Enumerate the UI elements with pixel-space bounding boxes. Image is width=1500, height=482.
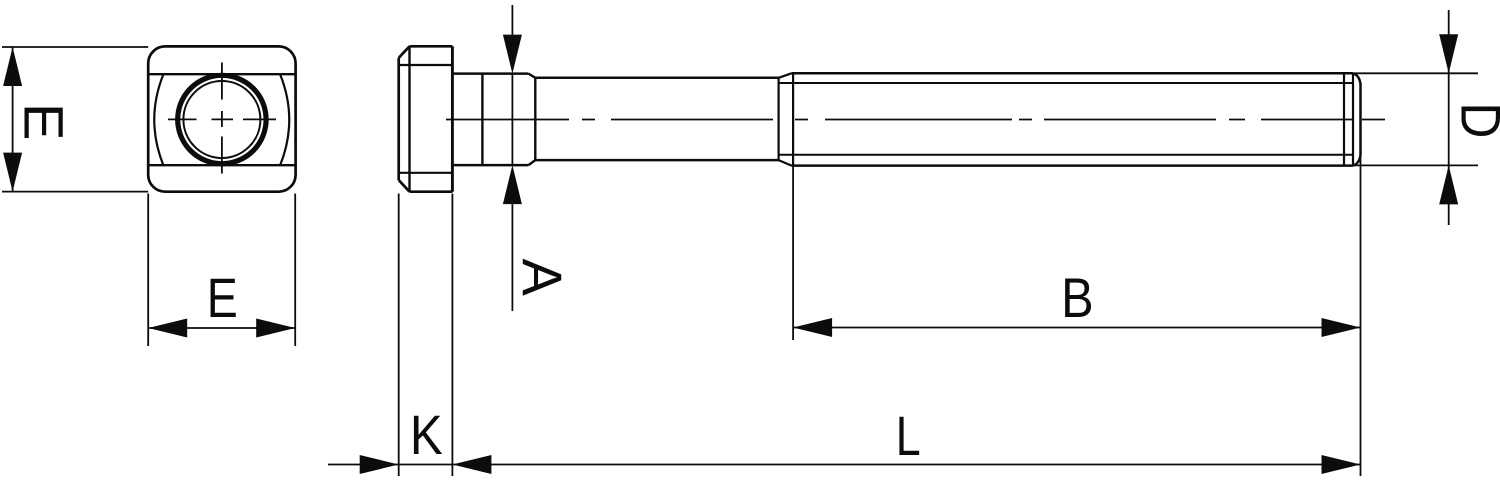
head end view: bottom chamfer line <box>148 164 295 166</box>
head end view: right side chamfer arc <box>280 74 289 166</box>
dimension A: lower arrowhead pointing up <box>503 165 522 204</box>
dimension L: left arrowhead pointing left <box>452 455 491 474</box>
dimension B: left extension line <box>792 166 794 340</box>
dimension L: right arrowhead pointing right <box>1322 455 1361 474</box>
thread: top root line <box>779 82 1353 84</box>
dimension E (horizontal): left extension line <box>147 194 149 347</box>
dimension E (vertical): dimension line <box>12 47 14 192</box>
dimension B: right arrowhead <box>1322 318 1361 337</box>
neck: shank junction edge line <box>534 78 536 160</box>
dimension D: lower arrowhead pointing up <box>1439 165 1458 204</box>
dimension A: lower leader line <box>511 204 513 311</box>
bolt head side view: top edge <box>410 45 453 48</box>
bolt head side view: right face <box>451 46 454 191</box>
thread start line <box>792 73 794 165</box>
svg-text:E: E <box>207 266 238 329</box>
bolt head side view: upper chamfer ring line <box>399 64 453 66</box>
dimension E (horizontal): right extension line <box>294 194 296 347</box>
bolt end dome edge line <box>1352 73 1354 165</box>
bolt head side view: bottom-left chamfer <box>399 180 410 192</box>
thread runout: top flare <box>779 73 792 78</box>
neck: top edge <box>452 72 528 75</box>
thread end line <box>1343 73 1345 165</box>
head end view: rounded square outline <box>148 46 295 191</box>
svg-text:B: B <box>1061 267 1093 330</box>
dimension B: left arrowhead <box>793 318 832 337</box>
bolt head side view: lower chamfer ring line <box>399 172 453 174</box>
dimension E (horizontal): dimension line <box>148 327 295 329</box>
bolt head side view: chamfer edge line <box>408 46 410 191</box>
bolt head side view: top-left chamfer <box>399 46 410 58</box>
dimension A: line crossing the neck <box>511 74 513 166</box>
dimension A: upper arrowhead pointing down <box>503 35 522 74</box>
svg-text:D: D <box>1449 102 1500 138</box>
dimension D: upper arrowhead pointing down <box>1439 34 1458 73</box>
dimension E (horizontal): left arrowhead <box>148 319 187 338</box>
thread runout: bottom flare <box>779 160 792 166</box>
svg-text:E: E <box>12 103 75 140</box>
dimension K: outside arrowhead pointing right <box>360 455 399 474</box>
shank: bottom edge <box>535 159 778 162</box>
neck: bottom chamfer to shank <box>529 160 536 165</box>
dimension D: bottom extension line <box>1354 164 1478 166</box>
neck: bottom edge <box>452 164 528 167</box>
bolt head side view: bottom edge <box>410 190 453 193</box>
dimension K: right extension line <box>451 194 453 477</box>
dimension A: upper leader line <box>511 5 513 36</box>
shank: top edge <box>535 77 778 80</box>
dimension E (vertical): top extension line <box>2 46 148 48</box>
dimension E (horizontal): right arrowhead <box>256 319 295 338</box>
tapped hole: major diameter circle (thick) <box>178 75 266 163</box>
bolt axis centerline <box>446 119 1385 121</box>
svg-text:L: L <box>896 404 921 467</box>
dimension E (vertical): bottom extension line <box>2 191 148 193</box>
thread: top crest line <box>792 72 1354 75</box>
neck: top chamfer to shank <box>529 74 536 78</box>
svg-text:A: A <box>511 259 574 297</box>
head end view: left side chamfer arc <box>154 74 163 166</box>
svg-text:K: K <box>410 404 443 467</box>
bolt head side view: left face <box>397 58 400 180</box>
end view horizontal centerline <box>168 118 276 120</box>
dimension E (vertical): lower arrowhead <box>3 153 22 192</box>
thread: bottom crest line <box>792 164 1354 167</box>
dimension K/L: shared dimension line <box>328 464 1361 466</box>
bolt end cap with rounded corners <box>1353 73 1361 165</box>
thread: bottom root line <box>779 154 1353 156</box>
dimension E (vertical): upper arrowhead <box>3 47 22 86</box>
head end view: top chamfer line <box>148 73 295 75</box>
dimension D: dimension line <box>1448 10 1450 225</box>
dimension B: right extension line <box>1360 155 1362 476</box>
dimension K: left extension line <box>398 194 400 477</box>
neck: collar edge line <box>481 74 483 166</box>
thread runout: vertical line <box>777 78 779 160</box>
dimension B: dimension line <box>793 327 1360 329</box>
dimension D: top extension line <box>1354 72 1478 74</box>
tapped hole: thread minor circle (thin) <box>183 81 260 158</box>
end view vertical centerline <box>221 63 223 174</box>
